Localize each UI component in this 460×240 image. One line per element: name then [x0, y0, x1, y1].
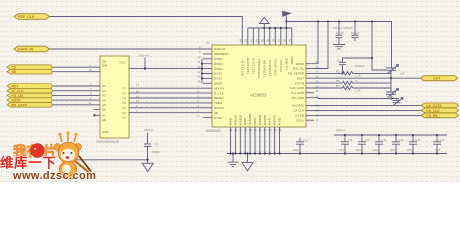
capacitor C6 1000pF	[339, 62, 346, 73]
port FQ_UD	[7, 93, 53, 98]
svg-text:DAC BL: DAC BL	[293, 67, 304, 71]
port DATA	[7, 98, 53, 103]
wire CA DATA row	[314, 104, 421, 106]
svg-text:DVSS: DVSS	[214, 77, 222, 81]
resistor R7 1.3K	[314, 86, 391, 90]
svg-text:Y4: Y4	[122, 101, 126, 105]
svg-text:R_CLK: R_CLK	[214, 91, 224, 95]
svg-text:DATA_IN: DATA_IN	[18, 48, 33, 52]
capacitor C4 100pF	[336, 22, 343, 45]
svg-text:AGND/B: AGND/B	[238, 115, 242, 126]
svg-text:100pF: 100pF	[351, 31, 359, 35]
svg-text:C1: C1	[155, 142, 159, 146]
svg-text:Y2: Y2	[122, 91, 126, 95]
svg-text:DVSS: DVSS	[214, 82, 222, 86]
trimmer capacitor C8	[386, 65, 399, 79]
svg-text:100pF: 100pF	[390, 148, 398, 152]
port CA_CLK	[421, 108, 459, 113]
svg-text:1000pF: 1000pF	[355, 64, 365, 68]
svg-text:IOUT: IOUT	[297, 76, 304, 80]
port OUT	[420, 76, 458, 81]
wire RX_DATA	[53, 104, 95, 106]
wire RST	[53, 85, 95, 87]
svg-text:DVDD: DVDD	[214, 57, 223, 61]
port CA_DATA	[421, 103, 459, 108]
svg-text:SK: SK	[12, 70, 17, 74]
junction dots ground rail	[229, 152, 280, 154]
svg-text:R7: R7	[336, 84, 340, 88]
U1 right pin stubs	[306, 64, 314, 120]
junction at VCC rail start	[285, 20, 287, 22]
svg-text:维库一下: 维库一下	[0, 155, 56, 171]
wire stub A8	[94, 114, 100, 116]
svg-text:TXT/ CAL: TXT/ CAL	[279, 59, 283, 72]
svg-text:R6: R6	[336, 79, 340, 83]
svg-text:AVDD/B: AVDD/B	[263, 115, 267, 125]
svg-text:SYNC: SYNC	[214, 116, 223, 120]
wire W_CLK	[53, 90, 95, 92]
wire DVDD/DVSS vertical tie	[201, 59, 203, 84]
svg-text:VDACL VDDAA: VDACL VDDAA	[333, 26, 353, 30]
U1 bottom pin numbers	[229, 128, 281, 132]
svg-text:100pF: 100pF	[336, 31, 344, 35]
svg-text:AVDD/B: AVDD/B	[233, 115, 237, 125]
svg-text:AGND: AGND	[268, 117, 272, 125]
junction PLL filter node	[341, 72, 343, 74]
svg-text:W_CLK: W_CLK	[12, 89, 25, 93]
port DATA_IN	[14, 46, 50, 52]
wire DAC BL branch	[314, 22, 328, 69]
svg-text:C12: C12	[348, 138, 353, 142]
svg-text:REF_CLK: REF_CLK	[18, 15, 35, 19]
svg-text:AVDD: AVDD	[296, 62, 305, 66]
svg-text:AVDD: AVDD	[243, 118, 247, 126]
svg-text:U1: U1	[206, 41, 210, 45]
ground earth symbol	[333, 45, 345, 49]
wire IOUT row	[314, 77, 420, 79]
wire CA CLK row	[314, 109, 421, 111]
U2 pin numbers	[89, 64, 140, 114]
wire Y4 to U1	[129, 102, 203, 104]
capacitor C17	[433, 135, 441, 154]
svg-text:100pF: 100pF	[339, 148, 347, 152]
wire VCC rail top	[286, 22, 391, 69]
svg-text:AVDD/B: AVDD/B	[273, 115, 277, 125]
U1 left pin stubs	[203, 49, 212, 118]
svg-text:74HC4640A42R: 74HC4640A42R	[96, 140, 120, 144]
U1 left pin numbers	[198, 45, 202, 118]
port SK	[7, 69, 53, 74]
VCC flag symbol	[283, 11, 291, 28]
svg-text:TXT/DAT/LN: TXT/DAT/LN	[268, 60, 272, 76]
svg-text:PLL FILTER: PLL FILTER	[288, 72, 305, 76]
svg-text:DATA: DATA	[12, 99, 21, 103]
resistor R5 1.3K	[314, 72, 391, 76]
svg-text:AGND: AGND	[278, 117, 282, 125]
svg-text:C13: C13	[365, 138, 370, 142]
wire VCC label stem	[144, 58, 146, 69]
U1 bottom pin wires	[231, 127, 280, 154]
svg-text:Y1: Y1	[122, 86, 126, 90]
svg-text:DVDD: DVDD	[214, 67, 223, 71]
svg-text:Y5: Y5	[122, 106, 126, 110]
svg-text:100pF: 100pF	[373, 148, 381, 152]
svg-text:AD9851/B: AD9851/B	[206, 129, 221, 133]
ground triangle symbol 1	[142, 160, 153, 172]
U1 top pin wires	[248, 28, 292, 45]
svg-text:DAC GND: DAC GND	[290, 86, 305, 90]
svg-text:IOUTB: IOUTB	[295, 81, 304, 85]
svg-text:100pF: 100pF	[293, 148, 301, 152]
svg-text:CA_CLK: CA_CLK	[426, 109, 440, 113]
svg-text:CA DATA: CA DATA	[292, 104, 304, 108]
wire DATA	[53, 99, 95, 101]
wire PLL filter branch	[372, 22, 386, 71]
watermark dzsc.com	[0, 131, 96, 182]
wire 1000pF branch	[343, 58, 373, 62]
svg-text:CA CLK: CA CLK	[293, 109, 304, 113]
svg-text:A6: A6	[102, 108, 106, 112]
svg-text:SCLK: SCLK	[296, 118, 304, 122]
svg-text:DATA DI: DATA DI	[214, 47, 225, 51]
U2 left pin stubs	[94, 67, 100, 105]
U1 right pin numbers	[316, 60, 319, 122]
wire CA EN row	[314, 114, 421, 116]
svg-text:GND: GND	[102, 130, 110, 134]
svg-text:A3: A3	[102, 94, 106, 98]
resistor R6 1K	[314, 81, 391, 85]
svg-text:1.3K: 1.3K	[355, 74, 361, 78]
capacitor C14	[375, 135, 383, 154]
svg-text:Y7: Y7	[122, 116, 126, 120]
svg-text:RXDAT: RXDAT	[214, 106, 224, 110]
svg-text:TEST OUT/2: TEST OUT/2	[246, 57, 250, 74]
wire Y3 to U1	[129, 97, 203, 99]
svg-text:CA_EN: CA_EN	[426, 114, 438, 118]
wire CS	[53, 66, 95, 68]
junction at 1000pF branch	[371, 57, 373, 59]
junction DVDD pins	[201, 63, 203, 65]
wire Y1 to U1	[129, 87, 203, 89]
svg-text:AGND/B: AGND/B	[258, 115, 262, 126]
junction at analog rail	[390, 97, 392, 99]
junction at A8 stub	[93, 114, 95, 116]
port RX_DATA	[7, 103, 53, 108]
wire FQ_UD	[53, 94, 95, 96]
port RST	[7, 84, 53, 89]
trimmer capacitor C10	[393, 97, 404, 105]
port REF_CLK	[14, 14, 50, 20]
wire analog ground rail	[314, 97, 399, 100]
svg-text:C17: C17	[440, 138, 445, 142]
svg-text:AGND: AGND	[229, 117, 233, 125]
capacitor C11 100pF mid	[296, 138, 304, 154]
svg-text:1K: 1K	[355, 79, 359, 83]
ground earth symbol 2	[228, 154, 239, 167]
svg-text:GND-A: GND-A	[336, 128, 345, 132]
svg-text:C6: C6	[337, 58, 341, 62]
svg-text:100pF: 100pF	[356, 148, 364, 152]
svg-text:1n4: 1n4	[400, 72, 405, 76]
wire SK	[53, 71, 95, 73]
port CS	[7, 65, 53, 70]
svg-text:A1: A1	[102, 84, 106, 88]
svg-text:PLL GND: PLL GND	[291, 91, 305, 95]
junction at VCC stem	[144, 67, 146, 69]
trimmer capacitor C9	[386, 78, 399, 98]
svg-text:REF CLK IN: REF CLK IN	[240, 61, 244, 76]
svg-text:FQ_UD: FQ_UD	[12, 94, 24, 98]
svg-text:A4: A4	[102, 98, 106, 102]
svg-text:TXTDATA/FAH: TXTDATA/FAH	[257, 59, 261, 78]
port CA_EN	[421, 113, 459, 118]
svg-text:TEST OUT/3: TEST OUT/3	[251, 57, 255, 74]
wire AVDD branch	[314, 22, 318, 64]
svg-text:DVDD: DVDD	[214, 62, 223, 66]
junction dots on VCC rail	[317, 20, 319, 22]
svg-text:A5: A5	[102, 103, 106, 107]
top bus segment	[248, 27, 292, 29]
svg-text:RESET: RESET	[214, 96, 224, 100]
svg-text:100pF: 100pF	[407, 148, 415, 152]
svg-text:Y6: Y6	[122, 111, 126, 115]
capacitor C1 100pF	[144, 133, 151, 160]
svg-text:AVDD: AVDD	[290, 56, 294, 64]
svg-text:C11: C11	[303, 139, 308, 143]
svg-text:DVSS: DVSS	[214, 72, 222, 76]
wire Y6 to U1	[129, 112, 203, 114]
svg-text:CA_DATA: CA_DATA	[426, 104, 442, 108]
svg-text:AD9853: AD9853	[250, 93, 267, 98]
wire Y2 to U1	[129, 92, 203, 94]
svg-text:TXTDATA BH: TXTDATA BH	[262, 60, 266, 77]
svg-text:A2: A2	[102, 89, 106, 93]
svg-text:MIX RX: MIX RX	[214, 86, 224, 90]
wire bypass bank top rail	[334, 134, 447, 136]
wire VCC from U2 to U1	[129, 68, 202, 70]
IC U2 74HC4040 buffer	[100, 56, 129, 138]
capacitor C16	[409, 135, 417, 154]
svg-text:A8: A8	[102, 118, 106, 122]
svg-text:CA EN: CA EN	[295, 114, 304, 118]
svg-text:DVDD: DVDD	[253, 118, 257, 126]
node VCC tie at U2	[129, 58, 202, 84]
VCC triangle symbol	[259, 17, 269, 28]
ground triangle symbol 2	[242, 154, 253, 171]
capacitor C12	[341, 135, 349, 154]
svg-text:TXEN: TXEN	[214, 101, 222, 105]
svg-text:100pF: 100pF	[152, 150, 160, 154]
wire REF_CLK net	[50, 17, 243, 46]
svg-text:DIR: DIR	[102, 64, 108, 68]
svg-text:Y3: Y3	[122, 96, 126, 100]
svg-text:VCC: VCC	[119, 61, 126, 65]
junction dots top bus	[263, 27, 265, 29]
svg-text:GND-A+C: GND-A+C	[138, 54, 151, 58]
wire stub A7	[94, 109, 100, 111]
svg-text:RX_DATA: RX_DATA	[12, 103, 28, 107]
svg-text:A7: A7	[102, 114, 106, 118]
wire ground rail bottom	[227, 153, 447, 155]
svg-text:ADDRESS: ADDRESS	[214, 52, 229, 56]
U1 top pin numbers	[239, 39, 293, 42]
capacitor C15	[392, 135, 400, 154]
svg-text:OUT: OUT	[433, 77, 441, 81]
svg-text:TEST LATCH: TEST LATCH	[273, 59, 277, 76]
wire Y5 to U1	[129, 107, 203, 109]
svg-text:PLL VDD: PLL VDD	[292, 96, 305, 100]
svg-text:www.dzsc.com: www.dzsc.com	[12, 170, 96, 182]
capacitor C13	[358, 135, 366, 154]
svg-text:PLL MCC: PLL MCC	[284, 58, 288, 70]
svg-text:10pF: 10pF	[435, 148, 441, 152]
svg-text:1.3K: 1.3K	[355, 89, 361, 93]
svg-text:GND-A: GND-A	[144, 128, 153, 132]
junction IOUT node	[390, 77, 392, 79]
svg-text:C16: C16	[416, 138, 421, 142]
junction at left ground rail	[146, 159, 148, 161]
svg-text:C15: C15	[399, 138, 404, 142]
IC U1 AD9853 DDS	[212, 45, 306, 127]
svg-text:R5: R5	[336, 69, 340, 73]
svg-text:C14: C14	[382, 138, 387, 142]
port W_CLK	[7, 88, 53, 93]
svg-text:RST: RST	[12, 85, 20, 89]
wire DATA_IN net	[50, 48, 204, 50]
svg-text:DGND/BL: DGND/BL	[248, 113, 252, 126]
capacitor C5 100pF	[352, 22, 359, 42]
wire ground rail left	[72, 159, 148, 161]
